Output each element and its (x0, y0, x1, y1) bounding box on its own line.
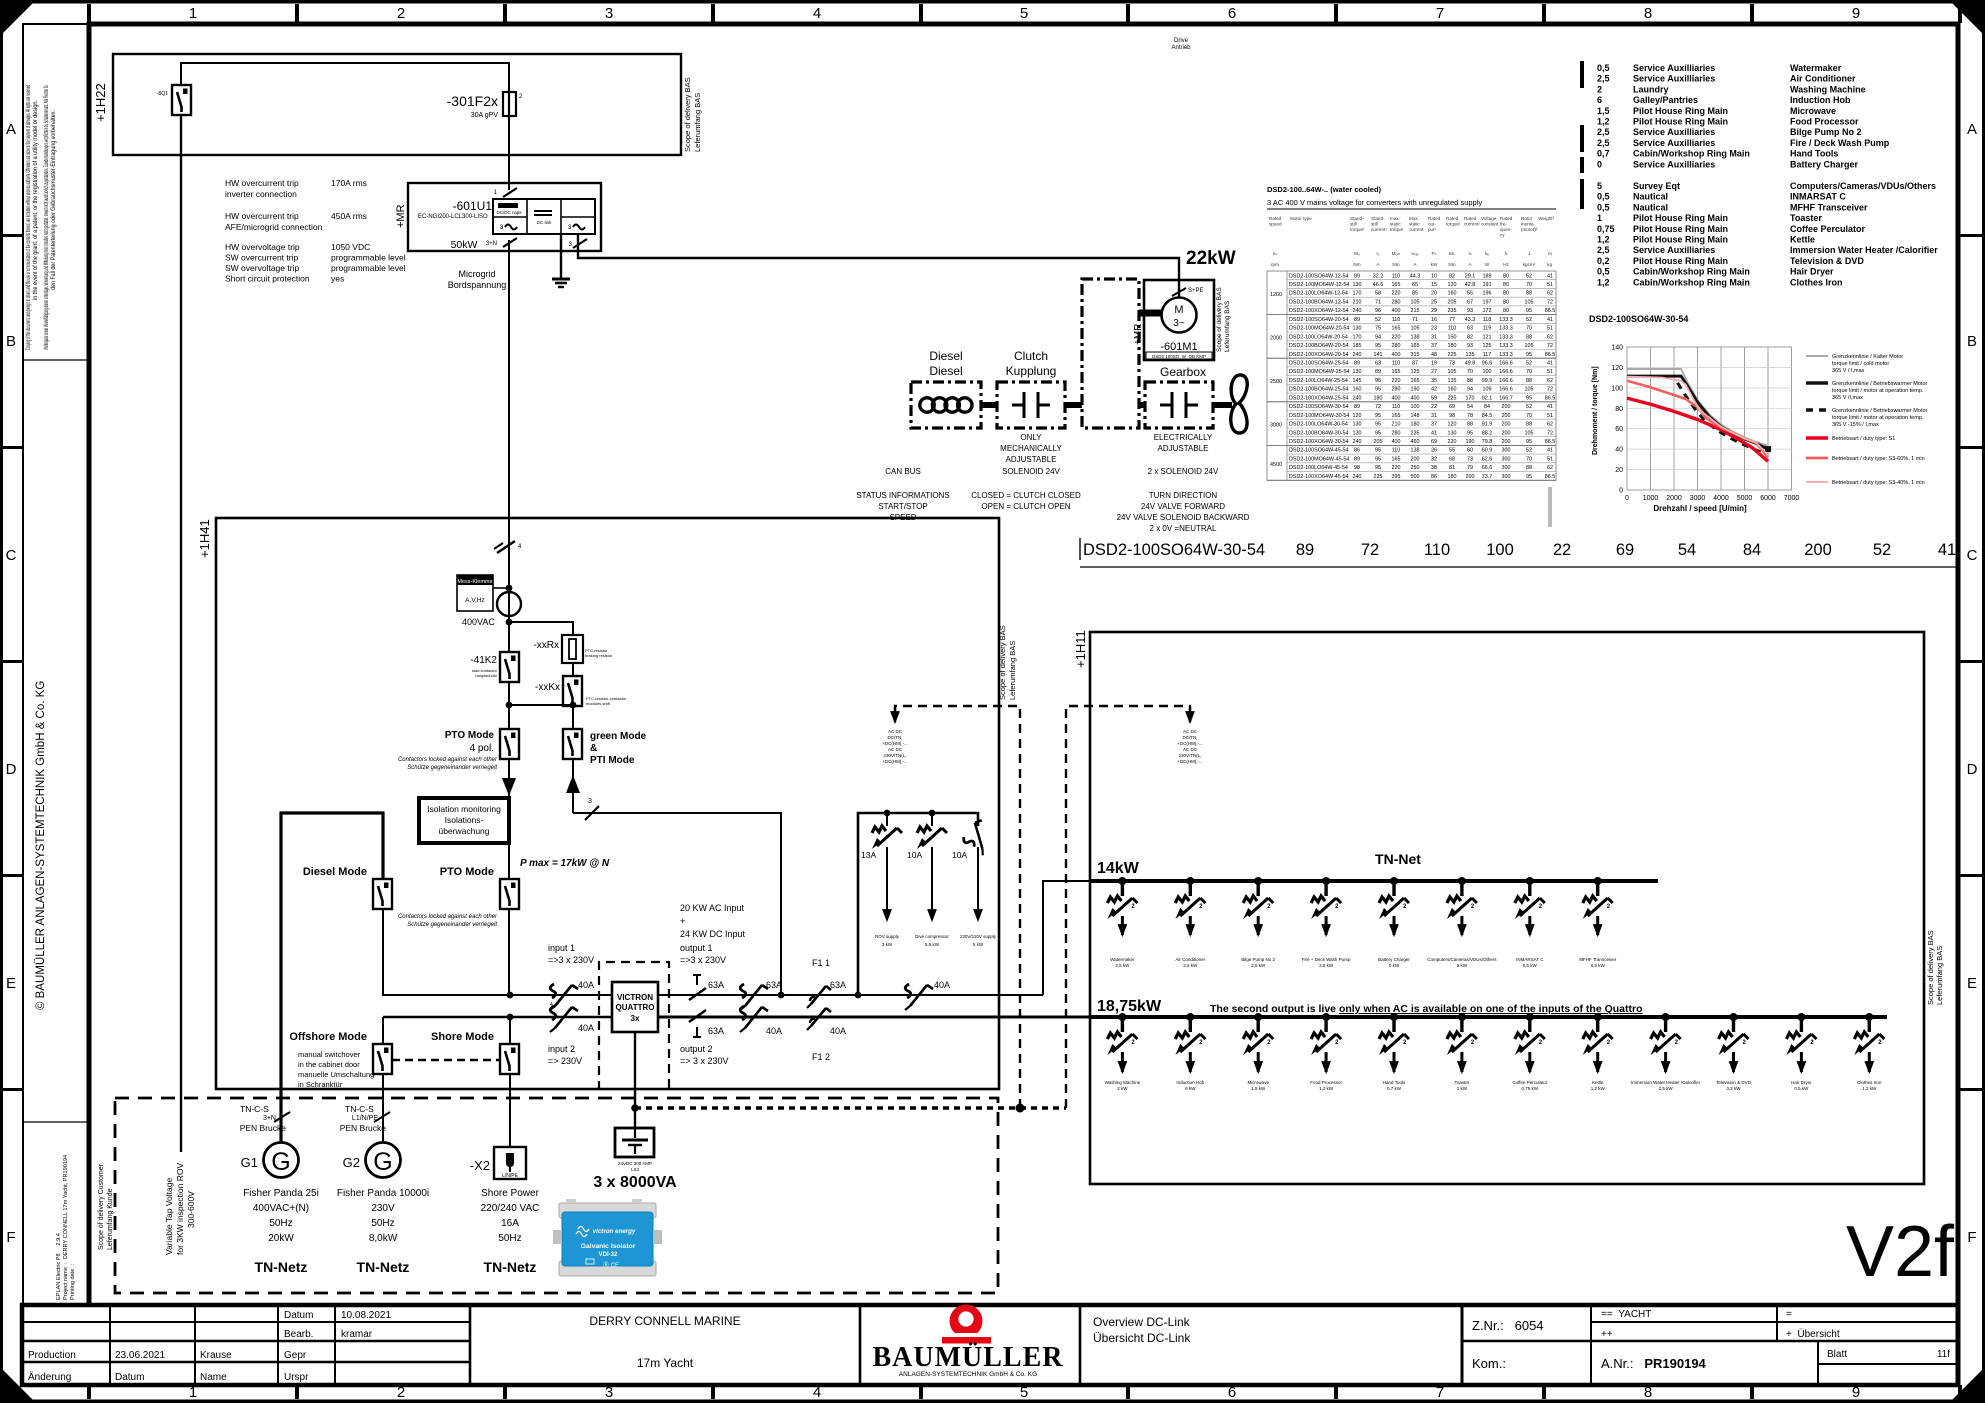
svg-text:95: 95 (1526, 474, 1532, 480)
svg-text:2,5: 2,5 (1597, 138, 1610, 148)
svg-text:Isolation monitoring: Isolation monitoring (427, 804, 501, 814)
svg-text:Z.Nr.: 6054: Z.Nr.: 6054 (1472, 1318, 1544, 1333)
svg-text:G: G (373, 1148, 392, 1176)
curve S1 (1627, 398, 1768, 461)
svg-text:400: 400 (1392, 352, 1401, 358)
svg-text:220/240 VAC: 220/240 VAC (481, 1203, 540, 1214)
propeller (1231, 375, 1247, 433)
svg-text:Immersion Water Heater /Calori: Immersion Water Heater /Calorifier (1790, 245, 1938, 255)
svg-text:40A: 40A (578, 980, 594, 990)
svg-text:Grenzkennlinie / Betriebswarme: Grenzkennlinie / Betriebswarmer Motor (1832, 408, 1928, 414)
svg-text:4: 4 (553, 1004, 556, 1010)
svg-text:105: 105 (1525, 387, 1534, 393)
svg-text:Induction Hob: Induction Hob (1790, 95, 1851, 105)
svg-text:135: 135 (1466, 352, 1475, 358)
svg-text:1050 VDC: 1050 VDC (331, 242, 370, 252)
shaft diesel-clutch (981, 402, 997, 408)
svg-text:110: 110 (1392, 361, 1401, 367)
svg-text:95: 95 (1526, 439, 1532, 445)
svg-text:DSD2-100XO64W-25-54: DSD2-100XO64W-25-54 (1289, 395, 1349, 401)
svg-text:105: 105 (1525, 300, 1534, 306)
svg-text:Cabin/Workshop Ring Main: Cabin/Workshop Ring Main (1633, 149, 1750, 159)
svg-text:73.7: 73.7 (1482, 474, 1493, 480)
svg-text:93: 93 (1467, 343, 1473, 349)
svg-text:DSD2-100XO64W-20-54: DSD2-100XO64W-20-54 (1289, 352, 1349, 358)
svg-text:63: 63 (1375, 361, 1381, 367)
svg-text:DSD2-100..64W-.. (water cooled: DSD2-100..64W-.. (water cooled) (1267, 185, 1382, 194)
svg-text:Microwave: Microwave (1790, 106, 1836, 116)
svg-text:Voltage: Voltage (1481, 216, 1497, 221)
svg-text:Kupplung: Kupplung (1006, 364, 1057, 378)
svg-text:TN-C-S: TN-C-S (345, 1104, 374, 1114)
svg-text:130: 130 (1353, 430, 1362, 436)
contactor diesel mode (303, 866, 392, 909)
svg-text:94: 94 (1375, 334, 1381, 340)
wire PTO down with arrow (508, 759, 510, 797)
wire U1 output to motor (22kW) (578, 234, 1179, 297)
svg-text:0,5 kW: 0,5 kW (1523, 963, 1538, 968)
svg-text:Air Conditioner: Air Conditioner (1175, 957, 1205, 962)
svg-text:3+N: 3+N (486, 241, 497, 247)
svg-text:Microwave: Microwave (1247, 1080, 1269, 1085)
svg-text:TURN DIRECTION: TURN DIRECTION (1149, 491, 1218, 500)
svg-text:Rated: Rated (1269, 216, 1282, 221)
svg-text:Clutch: Clutch (1014, 349, 1048, 363)
svg-text:80: 80 (1503, 282, 1509, 288)
svg-text:71: 71 (1375, 300, 1381, 306)
curve S3-60 (1627, 381, 1768, 458)
svg-text:92.1: 92.1 (1482, 395, 1493, 401)
aux sub-bus (858, 813, 978, 995)
svg-text:Coffee Perculator: Coffee Perculator (1512, 1080, 1547, 1085)
svg-text:kg: kg (1547, 262, 1552, 267)
svg-text:70: 70 (1526, 456, 1532, 462)
svg-text:Diesel: Diesel (929, 364, 962, 378)
svg-text:PTO Mode: PTO Mode (440, 866, 494, 878)
svg-text:2,5 kW: 2,5 kW (1251, 963, 1266, 968)
ROV tap labels (164, 1163, 196, 1255)
svg-text:Stand-: Stand- (1371, 216, 1385, 221)
svg-text:Variable Tap Voltage: Variable Tap Voltage (164, 1178, 174, 1255)
svg-text:225: 225 (1448, 352, 1457, 358)
svg-text:DSD2-100BO64W-30-54: DSD2-100BO64W-30-54 (1289, 430, 1349, 436)
svg-text:PEN Brucke: PEN Brucke (340, 1123, 387, 1133)
svg-text:still: still (1350, 222, 1357, 227)
svg-text:DERRY CONNELL MARINE: DERRY CONNELL MARINE (589, 1314, 740, 1328)
svg-text:31: 31 (1431, 334, 1437, 340)
svg-text:M₀ₘ: M₀ₘ (1392, 251, 1401, 256)
svg-text:95: 95 (1526, 352, 1532, 358)
svg-text:105: 105 (1448, 369, 1457, 375)
shaft motor to frame (1139, 310, 1162, 317)
converter -601U1 (395, 183, 601, 251)
svg-text:ROV supply: ROV supply (875, 934, 900, 939)
svg-text:ELECTRICALLY: ELECTRICALLY (1154, 433, 1213, 442)
svg-text:5000: 5000 (1737, 495, 1753, 502)
svg-text:95: 95 (1375, 387, 1381, 393)
svg-text:1,5: 1,5 (1597, 106, 1610, 116)
svg-text:P max = 17kW @ N: P max = 17kW @ N (520, 858, 610, 869)
wire U1 down to +1H41 (508, 240, 510, 540)
svg-text:280: 280 (1392, 387, 1401, 393)
svg-text:torque limit / motor at operat: torque limit / motor at operation temp. (1832, 415, 1924, 421)
svg-text:180: 180 (1411, 422, 1420, 428)
svg-text:5,5 kW: 5,5 kW (925, 942, 940, 947)
svg-text:40: 40 (1615, 447, 1623, 454)
svg-text:4: 4 (813, 5, 821, 22)
scope of delivery BAS (top box) (683, 77, 702, 152)
svg-text:DSD2-100XO64W-30-54: DSD2-100XO64W-30-54 (1289, 439, 1349, 445)
svg-text:65: 65 (1412, 282, 1418, 288)
wire shore to X2 (509, 1074, 511, 1147)
svg-text:Änderung: Änderung (28, 1371, 71, 1383)
svg-text:80: 80 (1503, 291, 1509, 297)
svg-text:Dive compressor: Dive compressor (915, 934, 949, 939)
svg-text:225: 225 (1374, 474, 1383, 480)
svg-text:torque: torque (1390, 227, 1403, 232)
svg-text:Toaster: Toaster (1455, 1080, 1470, 1085)
svg-text:Scope of delivery BAS: Scope of delivery BAS (998, 625, 1007, 700)
svg-text:Drehmoment / torque [Nm]: Drehmoment / torque [Nm] (1592, 366, 1599, 455)
svg-text:0,5: 0,5 (1597, 202, 1610, 212)
svg-text:DSD2-100SO64W-25-54: DSD2-100SO64W-25-54 (1289, 361, 1349, 367)
svg-text:out-: out- (1428, 222, 1436, 227)
svg-text:Fire / Deck Wash Pump: Fire / Deck Wash Pump (1790, 138, 1890, 148)
F1 2 breaker 40A (807, 1008, 846, 1062)
svg-text:DSD2-100SO64W-45-54: DSD2-100SO64W-45-54 (1289, 448, 1349, 454)
svg-text:kₑ: kₑ (1485, 251, 1489, 256)
svg-text:16: 16 (1431, 317, 1437, 323)
svg-text:output 1: output 1 (680, 943, 713, 953)
shaft clutch-frame (1065, 402, 1082, 408)
svg-text:50kW: 50kW (451, 239, 478, 251)
svg-text:49.8: 49.8 (1465, 361, 1476, 367)
diesel engine box (911, 382, 981, 428)
svg-text:AC DC: AC DC (888, 747, 903, 752)
svg-text:6: 6 (1228, 5, 1236, 22)
svg-text:87: 87 (1412, 361, 1418, 367)
svg-text:165: 165 (1392, 326, 1401, 332)
feeder Immersion Water Heater /Calorifier (1631, 1013, 1701, 1091)
svg-text:96.6: 96.6 (1482, 361, 1493, 367)
svg-text:100: 100 (1411, 404, 1420, 410)
svg-text:235: 235 (1448, 308, 1457, 314)
svg-text:51: 51 (1547, 456, 1553, 462)
svg-text:67: 67 (1467, 300, 1473, 306)
svg-text:ADJUSTABLE: ADJUSTABLE (1006, 455, 1057, 464)
svg-text:static: static (1409, 222, 1420, 227)
svg-text:Nautical: Nautical (1633, 192, 1668, 202)
svg-text:Mess-Klemme: Mess-Klemme (457, 579, 492, 585)
svg-text:88: 88 (1467, 422, 1473, 428)
breaker Q1 in +1H22 (157, 85, 191, 115)
svg-text:MFHF Transceiver: MFHF Transceiver (1790, 202, 1868, 212)
svg-text:3~: 3~ (1173, 318, 1185, 329)
svg-text:20: 20 (1431, 291, 1437, 297)
svg-text:Leferumfang BAS: Leferumfang BAS (693, 93, 702, 152)
svg-text:STATUS INFORMATIONS: STATUS INFORMATIONS (856, 491, 949, 500)
input1 breaker 40A (550, 980, 594, 1010)
svg-text:300: 300 (1502, 474, 1511, 480)
svg-text:Microgrid: Microgrid (458, 269, 495, 279)
svg-text:Name: Name (200, 1372, 227, 1383)
svg-text:A: A (6, 121, 16, 138)
svg-text:Iₙ: Iₙ (1468, 251, 1471, 256)
svg-text:62: 62 (1547, 378, 1553, 384)
svg-text:69: 69 (1431, 439, 1437, 445)
svg-text:Computers/Cameras/VDUs/Others: Computers/Cameras/VDUs/Others (1427, 957, 1497, 962)
svg-text:100: 100 (1483, 369, 1492, 375)
svg-text:Nm: Nm (1353, 262, 1360, 267)
svg-text:fₙ: fₙ (1504, 251, 1507, 256)
svg-text:58: 58 (1375, 291, 1381, 297)
svg-text:72: 72 (1547, 343, 1553, 349)
svg-text:in the event of the grant, of: in the event of the grant, of a patent, … (33, 100, 39, 300)
svg-text:165: 165 (1411, 343, 1420, 349)
svg-text:85: 85 (1412, 291, 1418, 297)
svg-text:DSD2-100LO64W-12-54: DSD2-100LO64W-12-54 (1289, 291, 1348, 297)
svg-text:V2f: V2f (1846, 1212, 1955, 1292)
svg-text:0,75: 0,75 (1597, 224, 1615, 234)
svg-text:in the cabinet door: in the cabinet door (298, 1060, 360, 1069)
svg-text:MFHF Transceiver: MFHF Transceiver (1579, 957, 1617, 962)
svg-text:2000: 2000 (1270, 335, 1282, 341)
svg-text:60.9: 60.9 (1482, 448, 1493, 454)
svg-text:Overview DC-Link: Overview DC-Link (1093, 1315, 1191, 1329)
svg-text:200: 200 (1411, 456, 1420, 462)
svg-text:130: 130 (1353, 326, 1362, 332)
enclosure box +1H22 (113, 54, 681, 155)
node 400VAC branch (506, 619, 513, 626)
svg-text:constant: constant (1481, 222, 1499, 227)
svg-text:315: 315 (1411, 352, 1420, 358)
svg-text:98: 98 (1354, 465, 1360, 471)
svg-text:185: 185 (1353, 343, 1362, 349)
svg-text:70: 70 (1467, 369, 1473, 375)
svg-text:2500: 2500 (1270, 379, 1282, 385)
svg-text:2,5 kW: 2,5 kW (1115, 963, 1130, 968)
svg-text:63A: 63A (708, 980, 724, 990)
svg-text:Television & DVD: Television & DVD (1716, 1080, 1752, 1085)
svg-text:170: 170 (1353, 291, 1362, 297)
svg-text:Food Processor: Food Processor (1790, 117, 1859, 127)
svg-text:78: 78 (1467, 413, 1473, 419)
svg-text:Weight³: Weight³ (1538, 216, 1554, 221)
svg-text:190: 190 (1466, 439, 1475, 445)
svg-text:100: 100 (1486, 541, 1514, 559)
svg-text:Survey Eqt: Survey Eqt (1633, 181, 1680, 191)
svg-text:84: 84 (1484, 404, 1490, 410)
svg-text:DSD2-100SO64W-30-54: DSD2-100SO64W-30-54 (1083, 541, 1265, 559)
svg-text:400: 400 (1411, 395, 1420, 401)
feeder Microwave (1243, 1013, 1273, 1091)
svg-text:ADJUSTABLE: ADJUSTABLE (1158, 444, 1209, 453)
svg-text:DSD2-100BO64W-25-54: DSD2-100BO64W-25-54 (1289, 387, 1349, 393)
output2 wire (658, 1016, 1090, 1019)
riser output1 to 14kW bus (1043, 881, 1090, 995)
victron galvanic isolator device (553, 1199, 662, 1276)
svg-text:DSD2-100MO64W-12-54: DSD2-100MO64W-12-54 (1289, 282, 1349, 288)
svg-text:B: B (6, 333, 16, 350)
svg-text:19: 19 (1431, 361, 1437, 367)
svg-text:S+PE: S+PE (1188, 288, 1204, 294)
svg-text:TN-Netz: TN-Netz (484, 1259, 537, 1275)
svg-text:91.9: 91.9 (1482, 422, 1493, 428)
svg-text:3: 3 (588, 798, 592, 805)
svg-text:kgcm²: kgcm² (1523, 262, 1536, 267)
svg-text:1,2 kW: 1,2 kW (1591, 1086, 1606, 1091)
output1 switch 63A (689, 975, 724, 1000)
svg-text:225: 225 (1448, 395, 1457, 401)
feeder Induction Hob (1175, 1013, 1205, 1091)
svg-text:210: 210 (1392, 422, 1401, 428)
svg-text:torque limit / motor at operat: torque limit / motor at operation temp. (1832, 388, 1924, 394)
svg-text:Leferumfang BAS: Leferumfang BAS (1224, 300, 1231, 352)
svg-text:INMARSAT C: INMARSAT C (1790, 192, 1846, 202)
svg-text:1,2: 1,2 (1597, 235, 1610, 245)
svg-text:Scope of delivery BAS: Scope of delivery BAS (683, 77, 692, 152)
svg-text:60: 60 (1467, 448, 1473, 454)
svg-text:yes: yes (331, 274, 344, 284)
svg-text:220: 220 (1392, 378, 1401, 384)
svg-text:+1H41: +1H41 (197, 519, 212, 558)
svg-text:96: 96 (1375, 308, 1381, 314)
svg-text:input 1: input 1 (548, 943, 575, 953)
svg-text:Copying of this document, and: Copying of this document, and giving it … (26, 85, 32, 350)
svg-text:52: 52 (1526, 404, 1532, 410)
svg-text:for 3KW inspection ROV: for 3KW inspection ROV (175, 1163, 185, 1255)
curve warm -15% dashed (1678, 383, 1769, 456)
svg-text:DSD2-100LO64W-30-54: DSD2-100LO64W-30-54 (1289, 422, 1348, 428)
svg-text:4 pol.: 4 pol. (470, 743, 494, 754)
svg-text:20 KW AC Input: 20 KW AC Input (680, 903, 745, 913)
svg-text:Air Conditioner: Air Conditioner (1790, 74, 1856, 84)
svg-text:E: E (1967, 975, 1977, 992)
svg-text:G1: G1 (241, 1155, 258, 1170)
svg-text:Datum: Datum (115, 1372, 144, 1383)
svg-text:88: 88 (1526, 422, 1532, 428)
feeder Air Conditioner (1175, 877, 1205, 968)
svg-text:1: 1 (189, 5, 197, 22)
wire from Q1 up and right to fuse (181, 63, 509, 88)
feeder Battery Charger (1378, 877, 1410, 968)
svg-text:Production: Production (28, 1350, 76, 1361)
shaft frame-gearbox (1139, 402, 1145, 408)
svg-text:365 V / I,max: 365 V / I,max (1832, 368, 1865, 374)
svg-text:Betriebsart / duty type: S3-60: Betriebsart / duty type: S3-60%, 1 min (1832, 456, 1925, 462)
svg-text:400: 400 (1392, 395, 1401, 401)
svg-text:200: 200 (1466, 474, 1475, 480)
svg-text:3 kW: 3 kW (882, 942, 893, 947)
svg-text:quen-: quen- (1500, 227, 1512, 232)
svg-text:Watermaker: Watermaker (1110, 957, 1135, 962)
feeder Hand Tools (1379, 1013, 1409, 1091)
svg-text:88: 88 (1526, 378, 1532, 384)
svg-text:81: 81 (1449, 465, 1455, 471)
F1 1 breaker 63A (807, 958, 846, 1008)
svg-text:Pilot House Ring Main: Pilot House Ring Main (1633, 106, 1728, 116)
svg-text:VDI-32: VDI-32 (599, 1252, 618, 1258)
svg-text:Bilge Pump No 2: Bilge Pump No 2 (1790, 127, 1862, 137)
wire from Q1 down to ROV tap (180, 115, 182, 1152)
svg-text:Contactors locked against each: Contactors locked against each other (398, 757, 498, 763)
svg-text:240: 240 (1353, 395, 1362, 401)
svg-text:20: 20 (1615, 467, 1623, 474)
svg-text:205: 205 (1448, 300, 1457, 306)
svg-text:80: 80 (1615, 406, 1623, 413)
svg-text:rpm: rpm (1271, 262, 1279, 267)
svg-text:Datum: Datum (284, 1310, 313, 1321)
wire U1 to ground (560, 234, 562, 279)
svg-text:196: 196 (1483, 291, 1492, 297)
wire diesel mode to input1 (383, 909, 510, 995)
contactor PTO mode upper (398, 729, 519, 771)
svg-text:Coffee Perculator: Coffee Perculator (1790, 224, 1866, 234)
contactor green mode (563, 729, 647, 766)
plug stub right (1066, 706, 1203, 1108)
svg-text:1 kW: 1 kW (1457, 1086, 1468, 1091)
svg-text:110: 110 (1392, 317, 1401, 323)
svg-text:93: 93 (1467, 308, 1473, 314)
svg-text:2 x 0V =NEUTRAL: 2 x 0V =NEUTRAL (1150, 524, 1217, 533)
svg-text:191: 191 (1483, 282, 1492, 288)
svg-text:37: 37 (1431, 343, 1437, 349)
svg-text:Television & DVD: Television & DVD (1790, 256, 1864, 266)
svg-text:110: 110 (1392, 404, 1401, 410)
svg-text:89: 89 (1354, 361, 1360, 367)
svg-text:70: 70 (1526, 326, 1532, 332)
svg-text:300: 300 (1502, 465, 1511, 471)
svg-text:20kW: 20kW (268, 1233, 294, 1244)
svg-text:60: 60 (1615, 426, 1623, 433)
svg-text:6: 6 (1597, 95, 1602, 105)
svg-text:189: 189 (1483, 273, 1492, 279)
feeder Clothes Iron (1854, 1013, 1884, 1091)
svg-text:220: 220 (1392, 291, 1401, 297)
svg-text:programmable level: programmable level (331, 263, 406, 273)
svg-text:84: 84 (1743, 541, 1761, 559)
svg-text:Project name : DERRY CONNELL: Project name : DERRY CONNELL 17m Yacht, … (63, 1155, 69, 1300)
svg-text:inverter connection: inverter connection (225, 189, 297, 199)
svg-text:180: 180 (1448, 474, 1457, 480)
svg-text:2,5 kW: 2,5 kW (1659, 1086, 1674, 1091)
svg-text:Cabin/Workshop Ring Main: Cabin/Workshop Ring Main (1633, 277, 1750, 287)
svg-text:3 x 8000VA: 3 x 8000VA (593, 1174, 677, 1191)
svg-text:&: & (590, 743, 597, 754)
battery 3x8000VA (593, 1128, 677, 1191)
svg-text:DSD2-100LO64W-45-54: DSD2-100LO64W-45-54 (1289, 465, 1348, 471)
svg-text:280: 280 (1392, 300, 1401, 306)
svg-text:0,5 kW: 0,5 kW (1794, 1086, 1809, 1091)
ground symbol (552, 279, 570, 287)
svg-text:Diesel: Diesel (929, 349, 962, 363)
svg-text:16A: 16A (501, 1218, 519, 1229)
feeder Fire + Deck Wash Pump (1302, 877, 1351, 968)
svg-text:98: 98 (1449, 413, 1455, 419)
svg-text:Service Auxilliaries: Service Auxilliaries (1633, 138, 1715, 148)
svg-text:0: 0 (1625, 495, 1629, 502)
dashed frame around quattro inputs (599, 962, 669, 1090)
svg-text:F: F (1967, 1229, 1976, 1246)
svg-text:Clothes Iron: Clothes Iron (1790, 277, 1843, 287)
svg-text:160: 160 (1448, 387, 1457, 393)
svg-text:=: = (1786, 1309, 1792, 1320)
svg-text:Bordspannung: Bordspannung (448, 280, 507, 290)
contactor -41K2 (470, 652, 519, 682)
svg-text:62.6: 62.6 (1482, 456, 1493, 462)
svg-text:110: 110 (1424, 541, 1450, 559)
svg-text:10: 10 (1431, 273, 1437, 279)
